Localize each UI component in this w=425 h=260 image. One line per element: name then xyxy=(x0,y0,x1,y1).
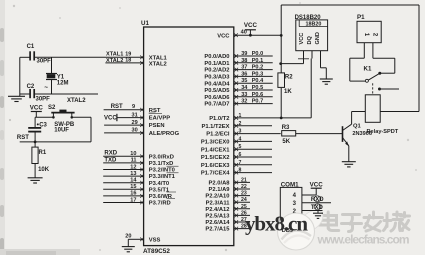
svg-text:VCC: VCC xyxy=(244,22,258,29)
svg-text:P3.7/RD: P3.7/RD xyxy=(149,201,171,207)
svg-text:P0.0/AD0: P0.0/AD0 xyxy=(204,54,229,60)
svg-text:RXD: RXD xyxy=(311,197,324,203)
svg-text:P1.5/CEX2: P1.5/CEX2 xyxy=(201,155,230,161)
svg-text:17: 17 xyxy=(130,197,136,203)
svg-text:ALE/PROG: ALE/PROG xyxy=(149,131,180,137)
svg-text:P1.2/ECI: P1.2/ECI xyxy=(206,132,230,138)
svg-text:13: 13 xyxy=(130,171,136,177)
svg-text:32: 32 xyxy=(241,99,247,105)
svg-text:P2.2/A10: P2.2/A10 xyxy=(205,194,229,200)
svg-text:P2.7/A15: P2.7/A15 xyxy=(205,227,230,233)
svg-text:30: 30 xyxy=(132,128,138,134)
svg-text:P3.4/T0: P3.4/T0 xyxy=(149,181,169,187)
svg-text:P0.1/AD1: P0.1/AD1 xyxy=(204,61,230,67)
svg-text:40: 40 xyxy=(241,30,247,36)
svg-text:K1: K1 xyxy=(364,65,372,72)
svg-text:P0.6/AD6: P0.6/AD6 xyxy=(204,95,230,101)
svg-text:VCC: VCC xyxy=(104,115,117,121)
svg-text:S2: S2 xyxy=(48,105,56,111)
svg-text:C1: C1 xyxy=(27,44,35,50)
svg-text:P0.0: P0.0 xyxy=(252,51,264,57)
svg-text:XTAL2: XTAL2 xyxy=(149,62,167,68)
svg-text:P3.3/INT1: P3.3/INT1 xyxy=(149,174,176,180)
svg-text:30PF: 30PF xyxy=(36,96,51,102)
svg-text:P0.7: P0.7 xyxy=(252,99,264,105)
svg-text:EA/VPP: EA/VPP xyxy=(149,116,170,122)
svg-text:10K: 10K xyxy=(38,167,50,173)
svg-text:U1: U1 xyxy=(141,20,149,27)
svg-text:P1.3/CEX0: P1.3/CEX0 xyxy=(201,140,230,146)
svg-text:21: 21 xyxy=(241,177,247,183)
svg-text:TXD: TXD xyxy=(104,157,117,163)
svg-text:P1.0/T2: P1.0/T2 xyxy=(209,116,229,122)
svg-text:38: 38 xyxy=(241,58,247,64)
svg-text:VCC: VCC xyxy=(299,33,305,45)
svg-text:31: 31 xyxy=(132,112,138,118)
svg-text:2: 2 xyxy=(239,121,242,127)
svg-text:RXD: RXD xyxy=(104,150,117,156)
svg-text:5K: 5K xyxy=(282,139,290,145)
svg-text:VCC: VCC xyxy=(310,181,324,188)
svg-text:P0.2: P0.2 xyxy=(252,65,264,71)
svg-text:29: 29 xyxy=(132,120,138,126)
svg-text:P0.4: P0.4 xyxy=(252,78,264,84)
svg-text:~: ~ xyxy=(44,85,48,92)
svg-text:12M: 12M xyxy=(57,81,69,87)
svg-text:23: 23 xyxy=(241,191,247,197)
svg-text:34: 34 xyxy=(241,85,248,91)
svg-text:DQ: DQ xyxy=(307,35,313,44)
svg-text:P3.6/WR: P3.6/WR xyxy=(149,194,173,200)
svg-text:P2.6/A14: P2.6/A14 xyxy=(205,220,230,226)
svg-text:25: 25 xyxy=(241,204,247,210)
svg-text:P3.5/T1: P3.5/T1 xyxy=(149,187,170,193)
svg-text:Y1: Y1 xyxy=(57,75,65,81)
svg-text:P0.3/AD3: P0.3/AD3 xyxy=(204,75,230,81)
svg-text:XTAL2: XTAL2 xyxy=(67,98,86,104)
svg-text:P0.2/AD2: P0.2/AD2 xyxy=(204,68,229,74)
svg-text:10: 10 xyxy=(130,151,136,157)
svg-text:PSEN: PSEN xyxy=(149,123,165,129)
svg-text:P1: P1 xyxy=(357,14,365,21)
svg-text:P0.5/AD5: P0.5/AD5 xyxy=(204,88,230,94)
svg-text:RST: RST xyxy=(111,104,123,110)
svg-text:R1: R1 xyxy=(39,150,47,156)
svg-text:18B20: 18B20 xyxy=(306,22,322,28)
svg-text:11: 11 xyxy=(131,158,137,164)
svg-text:C3: C3 xyxy=(39,123,47,129)
svg-text:C2: C2 xyxy=(27,84,35,90)
svg-text:VCC: VCC xyxy=(217,34,230,40)
svg-text:P2.5/A13: P2.5/A13 xyxy=(205,214,230,220)
svg-text:5: 5 xyxy=(239,144,242,150)
svg-text:18: 18 xyxy=(125,58,131,64)
svg-text:Q1: Q1 xyxy=(353,124,362,130)
svg-text:P2.1/A9: P2.1/A9 xyxy=(209,187,231,193)
svg-text:24: 24 xyxy=(241,197,247,203)
svg-text:16: 16 xyxy=(130,191,136,197)
svg-text:14: 14 xyxy=(130,178,137,184)
svg-text:8: 8 xyxy=(239,168,242,174)
svg-text:P1.4/CEX1: P1.4/CEX1 xyxy=(201,147,230,153)
svg-text:P2.4/A12: P2.4/A12 xyxy=(205,207,229,213)
svg-text:7: 7 xyxy=(239,160,242,166)
svg-text:4: 4 xyxy=(239,136,242,142)
svg-text:P2.0/A8: P2.0/A8 xyxy=(209,181,231,187)
svg-text:AT89C52: AT89C52 xyxy=(143,248,170,255)
svg-text:P1.7/CEX4: P1.7/CEX4 xyxy=(201,171,230,177)
svg-text:20: 20 xyxy=(125,234,131,240)
svg-text:19: 19 xyxy=(125,51,131,57)
svg-text:XTAL1: XTAL1 xyxy=(106,51,123,57)
svg-text:P0.7/AD7: P0.7/AD7 xyxy=(204,102,229,108)
svg-text:39: 39 xyxy=(241,51,247,57)
svg-text:36: 36 xyxy=(241,71,247,77)
svg-text:10UF: 10UF xyxy=(54,127,69,133)
svg-text:35: 35 xyxy=(241,78,247,84)
svg-text:XTAL1: XTAL1 xyxy=(149,55,168,61)
svg-text:P0.3: P0.3 xyxy=(252,71,264,77)
svg-text:1K: 1K xyxy=(284,89,292,95)
svg-text:www.elecfans.com: www.elecfans.com xyxy=(317,233,410,247)
svg-text:3: 3 xyxy=(239,129,242,135)
svg-text:P2.3/A11: P2.3/A11 xyxy=(206,200,231,206)
svg-text:1: 1 xyxy=(239,113,242,119)
svg-text:30PF: 30PF xyxy=(37,59,52,65)
svg-text:22: 22 xyxy=(241,184,247,190)
svg-text:R2: R2 xyxy=(285,74,293,80)
svg-text:P3.0/RxD: P3.0/RxD xyxy=(149,154,174,160)
svg-text:P0.6: P0.6 xyxy=(252,92,264,98)
svg-text:GND: GND xyxy=(315,32,321,44)
svg-text:P0.5: P0.5 xyxy=(252,85,264,91)
svg-text:ybx8.cn: ybx8.cn xyxy=(245,212,308,236)
svg-text:P1.6/CEX3: P1.6/CEX3 xyxy=(201,163,230,169)
svg-text:6: 6 xyxy=(239,152,242,158)
svg-text:VCC: VCC xyxy=(30,105,44,112)
svg-text:12: 12 xyxy=(130,164,136,170)
svg-text:R3: R3 xyxy=(282,125,290,131)
svg-text:37: 37 xyxy=(241,65,247,71)
svg-text:XTAL2: XTAL2 xyxy=(106,58,123,64)
svg-text:VSS: VSS xyxy=(149,237,161,243)
svg-text:33: 33 xyxy=(241,92,247,98)
svg-text:RST: RST xyxy=(17,135,29,141)
svg-text:2N3906: 2N3906 xyxy=(352,131,372,137)
svg-text:9: 9 xyxy=(132,104,135,110)
svg-text:15: 15 xyxy=(130,184,136,190)
svg-text:P0.1: P0.1 xyxy=(252,58,264,64)
svg-text:P0.4/AD4: P0.4/AD4 xyxy=(204,81,230,87)
svg-text:P1.1/T2EX: P1.1/T2EX xyxy=(201,124,229,130)
